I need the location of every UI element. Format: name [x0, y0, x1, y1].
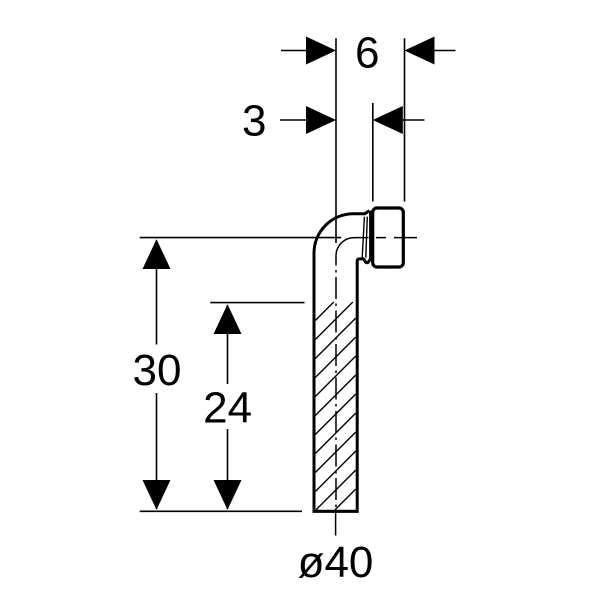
svg-text:24: 24: [203, 384, 252, 433]
svg-text:ø40: ø40: [298, 538, 374, 587]
leader line to ø40: [335, 513, 337, 536]
dimension 3: right arrow: [373, 106, 403, 134]
dimension 30: upper line segment: [156, 240, 158, 345]
dimension 24: top arrow: [214, 304, 242, 334]
dimension 3: left arrow: [306, 106, 336, 134]
centerline: horizontal dash-dot through socket: [376, 237, 417, 239]
spigot taper line 1: [362, 217, 364, 258]
extension line: hatch top / insertion depth (y=302.6): [210, 302, 304, 304]
svg-text:30: 30: [133, 346, 182, 395]
centerline: vertical dash-dot in pipe: [335, 270, 337, 511]
svg-text:6: 6: [355, 29, 379, 78]
socket sleeve: [373, 208, 404, 267]
dimension 6: left arrow: [306, 37, 336, 65]
dimension 30: bottom arrow: [143, 480, 171, 510]
extension line: horizontal at elbow axis level (y=237.6): [140, 237, 342, 239]
dimension 24: lower line segment: [227, 429, 229, 509]
dimension 24: upper line segment: [227, 305, 229, 384]
dimension 6: right tail: [433, 50, 456, 52]
pipe bottom end face: [313, 510, 359, 513]
dimension 30: lower line segment: [156, 393, 158, 509]
spigot taper line 2: [366, 217, 368, 258]
pipe inner wall: right edge + inner corner + bottom edge with bead dip: [357, 259, 371, 510]
centerline: solid arc through elbow: [336, 238, 369, 266]
extension line: socket right end (x=404.5) for dim 6: [404, 38, 406, 201]
extension line: bottom end (y=511.3): [140, 510, 302, 512]
extension line: pipe axis vertical (x=336) up to top dimensions: [335, 38, 337, 243]
dimension 6: left tail: [281, 50, 308, 52]
dimension 3: left tail: [280, 119, 308, 121]
pipe outer wall: left edge + outer elbow arc + top edge + spigot slant: [314, 211, 369, 510]
dimension 3: right tail: [401, 119, 425, 121]
svg-text:3: 3: [242, 97, 266, 146]
dimension 24: bottom arrow: [214, 480, 242, 510]
dimension 30: top arrow: [143, 239, 171, 269]
hatching of insertion zone: [315, 302, 355, 510]
spigot end face: [369, 211, 372, 260]
dimension 6: right arrow: [405, 37, 435, 65]
extension line: socket left edge (x=372.8) for dim 3: [372, 103, 374, 202]
